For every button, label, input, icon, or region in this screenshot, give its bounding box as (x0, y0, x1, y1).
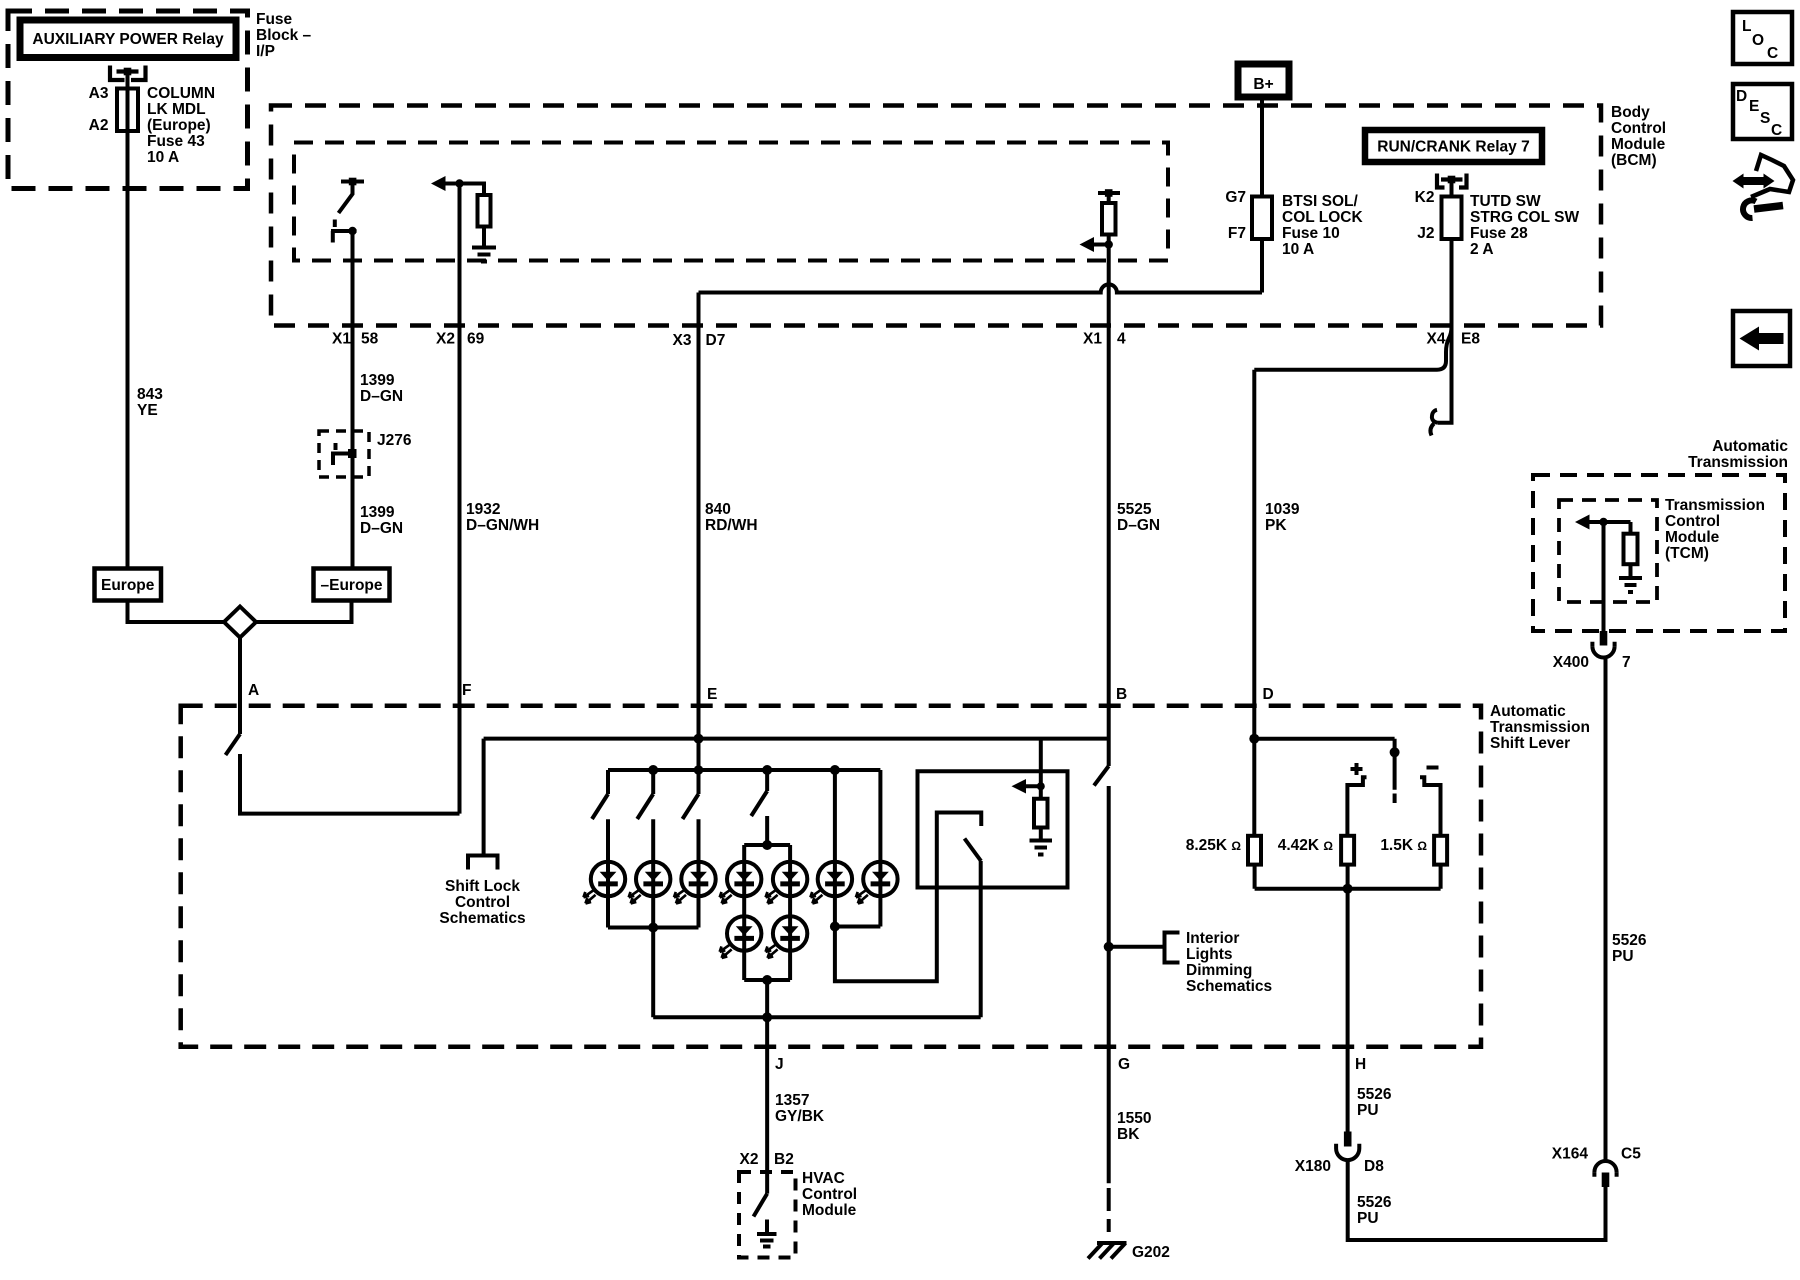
svg-text:Transmission: Transmission (1490, 719, 1590, 736)
pin X2 B2 (740, 1151, 794, 1168)
arrow in TCM (1575, 515, 1631, 530)
svg-text:G7: G7 (1225, 189, 1246, 206)
DESC nav box (1733, 84, 1792, 139)
svg-text:X2: X2 (436, 331, 455, 348)
label fuse 43 value (147, 85, 215, 166)
label Automatic Transmission (1688, 438, 1788, 471)
svg-text:1.5K Ω: 1.5K Ω (1380, 837, 1427, 854)
node middle frame top junction (762, 840, 772, 850)
svg-text:B2: B2 (774, 1151, 794, 1168)
wire to interior lights bracket (1109, 945, 1165, 949)
wire dashed to G202 (1107, 1188, 1111, 1232)
svg-text:Fuse: Fuse (256, 11, 293, 28)
wire horizontal B+ to X3-D7 with hop (699, 284, 1263, 292)
svg-text:PK: PK (1265, 517, 1287, 534)
svg-text:D: D (1263, 686, 1274, 703)
wire Europe box to splice (128, 601, 227, 623)
fuse F28 TUTD SW STRG COL SW 2A (1442, 197, 1462, 240)
switch arm in inner box (965, 839, 982, 862)
svg-text:L: L (1742, 18, 1751, 35)
wire LED column 2 (651, 819, 655, 927)
switch arm on wire A (226, 734, 241, 755)
wire resistor bottom bus (1255, 865, 1441, 889)
fuse F10 BTSI SOL COL LOCK 10A (1252, 197, 1272, 240)
pin X400 7 (1553, 654, 1631, 671)
svg-text:YE: YE (137, 402, 158, 419)
resistor R1 8.25K (1248, 836, 1261, 865)
fuse F43 COLUMN LK MDL 10A (117, 89, 138, 132)
svg-text:843: 843 (137, 386, 163, 403)
svg-text:Module: Module (1665, 529, 1720, 546)
switch arm on wire B (1094, 766, 1109, 786)
LED D8 (810, 862, 852, 904)
svg-text:5525: 5525 (1117, 501, 1152, 518)
svg-text:Europe: Europe (101, 577, 155, 594)
wire 843 YE from fuse 43 to Europe box (126, 72, 130, 569)
wire TCM to X400 (1602, 522, 1606, 631)
svg-text:D: D (1736, 88, 1747, 105)
node resistor bus junction (1343, 884, 1353, 894)
automatic transmission outer dashed box (1533, 475, 1785, 631)
svg-text:Interior: Interior (1186, 930, 1239, 947)
contact minus side (1420, 777, 1441, 836)
pin X164 C5 (1552, 1146, 1641, 1163)
wire LED column 4 (742, 845, 746, 980)
resistor in BCM left (478, 195, 491, 227)
Europe option box (95, 569, 162, 601)
label wire 5526 PU lower (1357, 1194, 1392, 1227)
svg-text:Control: Control (1611, 120, 1666, 137)
svg-text:PU: PU (1612, 948, 1634, 965)
svg-text:B+: B+ (1253, 76, 1273, 93)
wire A to F junction (240, 754, 460, 814)
schematic tools icon (1733, 155, 1794, 218)
ground in BCM left (472, 227, 496, 262)
svg-text:Transmission: Transmission (1688, 454, 1788, 471)
svg-text:Body: Body (1611, 104, 1650, 121)
wire left group down to bottom bus (651, 928, 655, 1018)
label wire 5526 PU riser (1612, 932, 1647, 965)
label wire 1550 BK (1117, 1110, 1151, 1143)
svg-text:Control: Control (1665, 513, 1720, 530)
switch S1 ignition in BCM (331, 178, 364, 243)
node middle group junction (762, 975, 772, 985)
switch SW3 on LED column 3 (683, 770, 699, 819)
wire riser X164 to X400 (1604, 658, 1608, 1162)
svg-text:COL LOCK: COL LOCK (1282, 209, 1363, 226)
wire B+ to fuse 10 (1260, 97, 1264, 197)
svg-text:B: B (1116, 686, 1127, 703)
pin X3 D7 (673, 332, 726, 349)
pin X4 E8 (1427, 331, 1481, 348)
svg-text:4: 4 (1117, 331, 1126, 348)
svg-text:A: A (248, 682, 259, 699)
svg-text:Shift Lock: Shift Lock (445, 878, 520, 895)
svg-text:1357: 1357 (775, 1092, 809, 1109)
connector X164 (1594, 1161, 1616, 1187)
wire fuse 10 down to horizontal (1260, 239, 1264, 293)
label wire 1932 D-GN/WH (466, 501, 539, 534)
back arrow nav box (1733, 311, 1790, 366)
TCM inner dashed box (1559, 500, 1657, 602)
contact and resistor branch X1-4 in BCM (1098, 189, 1120, 203)
wire LED column 1 (606, 819, 610, 927)
svg-text:BTSI SOL/: BTSI SOL/ (1282, 193, 1358, 210)
ground G202 (1088, 1243, 1170, 1261)
svg-text:J: J (775, 1056, 784, 1073)
switch SW2 on LED column 2 (637, 770, 653, 819)
LED D3 (674, 862, 716, 904)
node bus junction 2 (648, 765, 658, 775)
svg-text:C: C (1771, 122, 1782, 139)
node D junction (1249, 734, 1259, 744)
wire -Europe box to splice (254, 601, 352, 623)
LED D7 lower (766, 916, 808, 958)
svg-text:(Europe): (Europe) (147, 117, 211, 134)
svg-text:D7: D7 (706, 332, 726, 349)
arrow to resistor ground branch in BCM (431, 176, 484, 195)
resistor in BCM right (1102, 203, 1116, 235)
label wire 1399 D-GN lower (360, 504, 403, 537)
connector J276 (319, 431, 412, 477)
node interior lights junction (1104, 942, 1114, 952)
label wire 1039 PK (1265, 501, 1300, 534)
wire LED column 5 (788, 845, 792, 980)
label HVAC Control Module (802, 1170, 857, 1219)
splice diamond (224, 607, 256, 638)
wire B lower to G202 (1107, 786, 1111, 1183)
-Europe option box (314, 569, 390, 601)
wire branch into inner box (1039, 739, 1043, 799)
svg-text:S: S (1760, 110, 1770, 127)
svg-text:H: H (1355, 1056, 1366, 1073)
svg-text:X180: X180 (1295, 1158, 1331, 1175)
wire horizontal shift lock to B column (484, 737, 1109, 741)
ground in TCM (1619, 564, 1642, 592)
switch contact stub below X4-E8 (1430, 326, 1451, 436)
svg-text:1550: 1550 (1117, 1110, 1151, 1127)
wire bottom bus to J (653, 1015, 981, 1019)
LED D9 (856, 862, 898, 904)
battery feed B+ box (1238, 64, 1289, 97)
svg-text:1039: 1039 (1265, 501, 1300, 518)
wire D junction to wiper (1254, 737, 1394, 741)
svg-text:58: 58 (361, 331, 379, 348)
shift lever inner solid box (918, 771, 1068, 887)
svg-text:E: E (707, 686, 717, 703)
svg-text:X1: X1 (1083, 331, 1102, 348)
ground in inner box (1030, 828, 1053, 855)
svg-text:X3: X3 (673, 332, 692, 349)
LOC nav box (1733, 12, 1792, 64)
shift lock off-page bracket (468, 856, 498, 870)
connector X180 (1336, 1132, 1359, 1161)
wire D / 1039 PK (1252, 370, 1256, 739)
LED D6 lower (720, 916, 762, 958)
pin X2 69 (436, 331, 485, 348)
wire A from splice (238, 637, 242, 735)
svg-text:STRG COL SW: STRG COL SW (1470, 209, 1579, 226)
svg-text:Lights: Lights (1186, 946, 1233, 963)
svg-text:5526: 5526 (1612, 932, 1647, 949)
svg-text:Dimming: Dimming (1186, 962, 1252, 979)
wire X2-69 / 1932 D-GN-WH / F (458, 184, 462, 814)
svg-text:G: G (1118, 1056, 1130, 1073)
svg-text:D8: D8 (1364, 1158, 1384, 1175)
arrow in inner box (1012, 779, 1045, 794)
svg-text:Control: Control (455, 894, 510, 911)
svg-text:10 A: 10 A (1282, 241, 1314, 258)
svg-text:(TCM): (TCM) (1665, 545, 1709, 562)
svg-text:X164: X164 (1552, 1146, 1589, 1163)
svg-text:D–GN: D–GN (360, 520, 403, 537)
wire J to HVAC (765, 1017, 769, 1193)
resistor R2 4.42K (1341, 836, 1354, 865)
wire to resistor R1 (1252, 739, 1256, 836)
HVAC control module dashed box (739, 1172, 796, 1258)
svg-text:Transmission: Transmission (1665, 497, 1765, 514)
svg-text:J276: J276 (377, 432, 412, 449)
svg-text:(BCM): (BCM) (1611, 152, 1657, 169)
LED D2 (629, 862, 671, 904)
wire H down to X180 (1346, 889, 1350, 1132)
resistor R3 1.5K (1434, 836, 1447, 865)
wire 1039 curve from X4-E8 to D column (1254, 326, 1451, 370)
BCM inner dashed box (294, 143, 1168, 261)
svg-text:PU: PU (1357, 1210, 1379, 1227)
svg-text:PU: PU (1357, 1102, 1379, 1119)
relay contact bracket above fuse 43 (110, 66, 146, 81)
svg-text:D–GN/WH: D–GN/WH (466, 517, 539, 534)
svg-text:1399: 1399 (360, 504, 395, 521)
wire shift lock lead (482, 739, 486, 856)
LED D4 (720, 862, 762, 904)
wire right LED group bottom bar (835, 925, 881, 929)
svg-text:D–GN: D–GN (1117, 517, 1160, 534)
wire fuse 28 to X4-E8 (1450, 239, 1454, 326)
wire right group loop into inner box (835, 813, 981, 982)
resistor in inner box (1034, 799, 1048, 828)
node bus junction 4 (762, 765, 772, 775)
switch SW4 on LED middle pair (751, 770, 767, 816)
label Fuse Block - I/P (256, 11, 312, 60)
label fuse 10 value (1282, 193, 1363, 258)
wire X1-58 / 1399 D-GN to -Europe (351, 231, 355, 569)
wire LED column 7 (878, 770, 882, 927)
BCM outer dashed box (271, 106, 1601, 326)
svg-text:X400: X400 (1553, 654, 1589, 671)
svg-text:E8: E8 (1461, 331, 1480, 348)
svg-text:A2: A2 (89, 117, 109, 134)
label Shift Lock Control Schematics (439, 878, 525, 927)
svg-text:Fuse 43: Fuse 43 (147, 133, 205, 150)
wire middle pair frame bottom (744, 978, 790, 982)
LED D5 (766, 862, 808, 904)
label fuse 28 value (1470, 193, 1579, 258)
svg-text:F7: F7 (1228, 225, 1246, 242)
wire LED column 3 (697, 819, 701, 927)
svg-text:–Europe: –Europe (320, 577, 382, 594)
label wire 840 RD/WH (705, 501, 758, 534)
svg-text:1932: 1932 (466, 501, 500, 518)
svg-text:O: O (1752, 32, 1764, 49)
label Interior Lights Dimming Schematics (1186, 930, 1272, 995)
label minus (1427, 766, 1439, 770)
svg-text:HVAC: HVAC (802, 1170, 845, 1187)
svg-text:AUXILIARY POWER Relay: AUXILIARY POWER Relay (32, 31, 224, 48)
svg-text:Block –: Block – (256, 27, 312, 44)
svg-text:5526: 5526 (1357, 1194, 1392, 1211)
wire LED supply bus (608, 768, 880, 772)
wire X1-4 / 5525 D-GN / B (1107, 245, 1111, 767)
svg-text:LK MDL: LK MDL (147, 101, 206, 118)
svg-text:Fuse 28: Fuse 28 (1470, 225, 1528, 242)
svg-text:69: 69 (467, 331, 485, 348)
svg-text:G202: G202 (1132, 1244, 1170, 1261)
node left group junction (648, 923, 658, 933)
svg-text:2 A: 2 A (1470, 241, 1494, 258)
svg-text:Automatic: Automatic (1490, 703, 1566, 720)
svg-text:X2: X2 (740, 1151, 759, 1168)
node right group junction (830, 922, 840, 932)
svg-text:C: C (1767, 45, 1778, 62)
pin X180 D8 (1295, 1158, 1384, 1175)
svg-text:COLUMN: COLUMN (147, 85, 215, 102)
label wire 5525 D-GN (1117, 501, 1160, 534)
relay label box RUN/CRANK Relay 7 (1365, 130, 1542, 162)
svg-text:4.42K Ω: 4.42K Ω (1278, 837, 1334, 854)
svg-text:840: 840 (705, 501, 731, 518)
label wire 1399 D-GN upper (360, 372, 403, 405)
connector X400 (1592, 631, 1614, 658)
svg-text:10 A: 10 A (147, 149, 179, 166)
svg-text:Module: Module (802, 1202, 857, 1219)
label Transmission Control Module (TCM) (1665, 497, 1765, 562)
switch SW1 on LED column 1 (592, 770, 608, 819)
svg-text:A3: A3 (89, 85, 109, 102)
wiper contact of tap switch (1390, 739, 1400, 803)
label Body Control Module (BCM) (1611, 104, 1666, 169)
svg-text:X1: X1 (332, 331, 351, 348)
node bus junction E (694, 765, 704, 775)
wire X180 to X164 (1348, 1160, 1606, 1240)
svg-text:BK: BK (1117, 1126, 1140, 1143)
svg-text:J2: J2 (1417, 225, 1434, 242)
svg-text:Schematics: Schematics (1186, 978, 1272, 995)
svg-text:D–GN: D–GN (360, 388, 403, 405)
node bottom bus J junction (762, 1012, 772, 1022)
svg-text:F: F (462, 682, 471, 699)
svg-text:GY/BK: GY/BK (775, 1108, 825, 1125)
svg-text:X4: X4 (1427, 331, 1446, 348)
arrow on X1-4 branch (1080, 235, 1113, 253)
svg-text:E: E (1749, 98, 1759, 115)
ground in HVAC (757, 1220, 777, 1247)
label wire 843 YE (137, 386, 163, 419)
svg-text:5526: 5526 (1357, 1086, 1392, 1103)
wire left LED group bottom bar (608, 926, 699, 930)
label wire 5526 PU upper (1357, 1086, 1392, 1119)
label plus (1351, 763, 1363, 775)
svg-text:RUN/CRANK Relay 7: RUN/CRANK Relay 7 (1377, 139, 1529, 156)
svg-text:I/P: I/P (256, 43, 275, 60)
LED D1 (584, 862, 626, 904)
wire switch output down (979, 861, 983, 1017)
wire middle pair frame top (744, 816, 790, 845)
svg-text:RD/WH: RD/WH (705, 517, 758, 534)
svg-text:Schematics: Schematics (439, 910, 525, 927)
pin X1 4 (1083, 331, 1126, 348)
svg-text:1399: 1399 (360, 372, 395, 389)
svg-text:Fuse 10: Fuse 10 (1282, 225, 1340, 242)
fuse block I/P outer dashed box (8, 11, 248, 189)
svg-text:Control: Control (802, 1186, 857, 1203)
switch arm in HVAC (754, 1194, 768, 1217)
shift lever outer dashed box (181, 706, 1481, 1047)
svg-text:TUTD SW: TUTD SW (1470, 193, 1541, 210)
label Automatic Transmission Shift Lever (1490, 703, 1590, 752)
svg-text:C5: C5 (1621, 1146, 1641, 1163)
label wire 1357 GY/BK (775, 1092, 825, 1125)
pin X1 58 (332, 331, 379, 348)
wire middle group down to bottom bus (765, 980, 769, 1017)
contact plus side (1347, 777, 1366, 836)
node bus junction 6 (830, 765, 840, 775)
svg-text:K2: K2 (1415, 189, 1435, 206)
svg-text:7: 7 (1622, 654, 1631, 671)
wire X3-D7 / 840 RD-WH / E (697, 293, 701, 771)
svg-text:8.25K Ω: 8.25K Ω (1186, 837, 1242, 854)
wire bracket to fuse 28 (1450, 180, 1454, 197)
relay K_AUX label box AUXILIARY POWER Relay (20, 20, 236, 58)
svg-text:Automatic: Automatic (1712, 438, 1788, 455)
node junction E on horizontal (694, 734, 704, 744)
relay contact bracket above fuse 28 (1437, 174, 1467, 188)
interior lights off-page bracket (1165, 933, 1180, 963)
resistor in TCM (1624, 522, 1638, 564)
svg-text:Module: Module (1611, 136, 1666, 153)
svg-text:Shift Lever: Shift Lever (1490, 735, 1570, 752)
wire LED column 6 (833, 770, 837, 927)
